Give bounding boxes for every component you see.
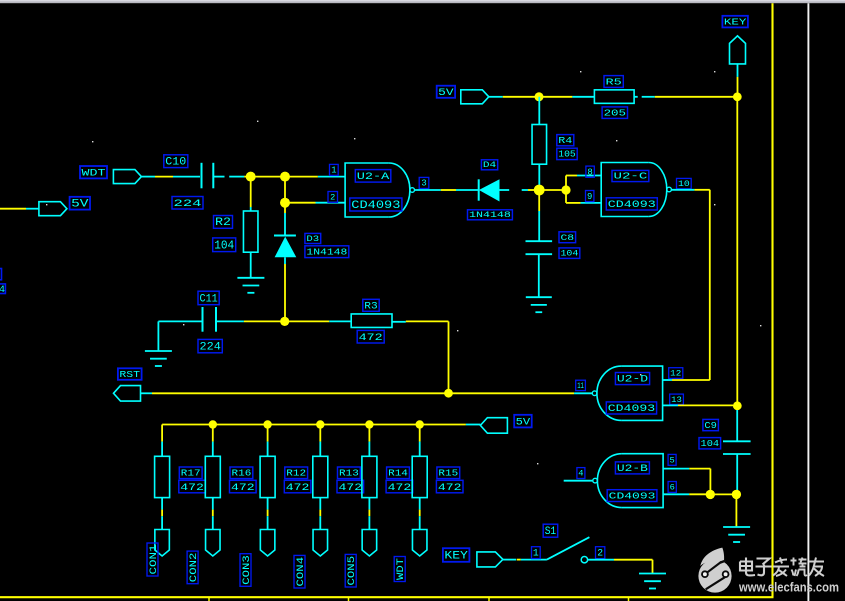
svg-text:6: 6 <box>670 483 675 493</box>
wire R14-connector <box>368 498 370 530</box>
wire R13-connector <box>319 498 321 530</box>
wire pin13-KEY <box>663 404 733 406</box>
wire bracket U2-C <box>566 176 601 203</box>
pin label 9 <box>586 191 594 202</box>
wire bus-R14 <box>368 425 370 457</box>
label U2-A <box>355 170 391 184</box>
wire node-bracket <box>539 189 566 191</box>
capacitor C11 <box>203 307 217 332</box>
label U2-B CD4093 <box>607 490 657 502</box>
label R5 value 205 <box>602 107 627 119</box>
sheet border right <box>771 3 773 597</box>
label U2-C <box>612 170 649 181</box>
resistor R5 <box>594 90 634 104</box>
svg-text:CD4093: CD4093 <box>608 200 656 211</box>
wire junction-junction <box>251 176 285 178</box>
diode D4 1N4148 <box>479 179 500 201</box>
junction 5V/R5/R4 <box>535 92 544 101</box>
wire WDT-C10 <box>141 176 200 178</box>
wire C8-ground <box>538 254 540 297</box>
svg-text:104: 104 <box>701 438 720 449</box>
resistor R14 <box>362 456 377 497</box>
svg-text:224: 224 <box>174 198 202 210</box>
svg-text:R5: R5 <box>606 77 623 88</box>
label C10 <box>164 155 188 169</box>
wire node-node vertical <box>284 177 286 203</box>
wire C9-node <box>736 454 738 494</box>
window top strip <box>0 0 845 3</box>
resistor R2 <box>243 211 258 252</box>
port 5V top <box>461 90 489 104</box>
svg-text:U2-C: U2-C <box>614 172 649 182</box>
sheet edge white line <box>807 3 809 601</box>
ground below R2 <box>237 278 264 293</box>
svg-text:472: 472 <box>231 482 255 494</box>
wire node-D3 <box>284 203 286 236</box>
svg-text:9: 9 <box>587 192 592 202</box>
svg-text:CON2: CON2 <box>188 553 200 583</box>
port KEY top <box>730 36 746 64</box>
clipped label fragment A <box>0 269 2 280</box>
ground below C8 <box>526 297 552 312</box>
wire pin6 node-node <box>710 493 736 495</box>
svg-text:2: 2 <box>330 193 335 203</box>
wire R4-node <box>538 164 540 190</box>
wire C11-node <box>216 320 285 322</box>
wire bus-R15 <box>419 425 421 457</box>
svg-text:KEY: KEY <box>444 551 468 563</box>
label R14 <box>387 467 410 479</box>
wire R17-connector <box>161 498 163 530</box>
svg-text:C8: C8 <box>561 233 575 243</box>
label R12 <box>285 467 308 479</box>
label C9 <box>703 419 719 430</box>
pin label 11 <box>576 380 586 391</box>
capacitor C8 <box>526 241 553 254</box>
port label CON2 <box>187 551 200 584</box>
resistor R3 <box>351 314 392 328</box>
port CON2 (column) <box>206 530 221 557</box>
svg-text:104: 104 <box>561 250 579 259</box>
svg-text:R2: R2 <box>215 217 231 229</box>
svg-text:224: 224 <box>200 342 222 354</box>
svg-text:3: 3 <box>421 179 426 189</box>
port label 5V top <box>437 86 455 98</box>
svg-text:1N4148: 1N4148 <box>469 212 511 220</box>
ground below S1 <box>639 574 666 589</box>
port label CON3 <box>240 554 253 587</box>
label R16 value 472 <box>230 480 257 494</box>
resistor R4 <box>532 125 547 165</box>
svg-text:R12: R12 <box>286 468 306 479</box>
pin label 1 <box>330 164 339 175</box>
wire R3-RST <box>391 321 448 393</box>
wire R16-connector <box>212 498 214 530</box>
bus junctions <box>209 420 424 428</box>
wire bus-R16 <box>212 425 214 457</box>
diode D3 1N4148 <box>274 236 296 258</box>
svg-text:U2-B: U2-B <box>617 463 648 474</box>
wire 5V left <box>0 208 39 210</box>
svg-text:4: 4 <box>578 469 583 479</box>
label R4 value 105 <box>557 148 577 160</box>
junction C9/ground <box>732 490 741 499</box>
resistor R15 <box>412 456 427 497</box>
pin label 5 <box>668 454 676 465</box>
wire pin6 <box>663 493 706 495</box>
resistor R16 <box>205 456 220 497</box>
clipped label fragment B <box>0 284 5 296</box>
pin label S1-2 <box>596 547 605 559</box>
pin label 3 <box>419 177 429 188</box>
pin label S1-1 <box>532 547 541 559</box>
resistor R17 <box>155 456 170 497</box>
label R3 <box>363 299 379 311</box>
port CON5 (column) <box>362 530 377 557</box>
label R17 <box>179 467 202 479</box>
label C9 value 104 <box>699 438 721 449</box>
svg-text:CD4093: CD4093 <box>351 200 400 212</box>
port 5V mid <box>480 418 507 434</box>
svg-text:4: 4 <box>0 285 5 296</box>
port label CON1 <box>147 543 160 576</box>
svg-text:5: 5 <box>669 456 674 466</box>
svg-text:472: 472 <box>339 482 363 494</box>
port RST <box>114 386 141 402</box>
port label 5V mid <box>514 415 532 429</box>
port label WDT <box>394 557 407 582</box>
wire bus-R13 <box>319 425 321 457</box>
junction C11/D3/R3 <box>280 317 289 326</box>
svg-text:1: 1 <box>331 166 336 176</box>
svg-text:13: 13 <box>671 396 682 405</box>
label D4 <box>481 160 497 170</box>
svg-text:R16: R16 <box>232 468 252 479</box>
wire KEY stub <box>737 64 739 97</box>
port label 5V left <box>70 197 90 211</box>
wire 5V resistor bus <box>162 424 480 426</box>
svg-text:472: 472 <box>438 482 462 494</box>
watermark url <box>738 580 839 595</box>
svg-text:U2-D: U2-D <box>617 374 648 385</box>
svg-text:8: 8 <box>587 167 592 177</box>
wire C10-node <box>213 176 250 178</box>
junction C10/R2 <box>246 172 256 182</box>
wire junction-R5 <box>539 96 594 98</box>
wire R2-ground <box>250 252 252 278</box>
svg-text:CD4093: CD4093 <box>608 403 655 414</box>
svg-text:C10: C10 <box>165 157 186 169</box>
wire C11-ground <box>158 321 202 351</box>
label R4 <box>557 135 574 146</box>
svg-text:5V: 5V <box>71 199 89 211</box>
resistor R12 <box>260 456 275 497</box>
pin label 12 <box>669 368 683 379</box>
wire node-ground <box>735 494 737 527</box>
wire R12-connector <box>267 498 269 530</box>
wire 5V-junction <box>489 96 539 98</box>
ground below C11 <box>145 351 172 366</box>
wire junction-R2 <box>250 180 252 211</box>
svg-text:CD4093: CD4093 <box>609 491 656 502</box>
wire to U2-A pin1 <box>285 176 345 178</box>
wire node-R3 <box>285 320 351 322</box>
nand gate U2-A CD4093 <box>345 163 414 217</box>
label R15 <box>437 467 460 479</box>
wire S1-ground <box>588 560 653 574</box>
grid dots <box>46 71 761 464</box>
label R2 value 104 <box>213 238 236 253</box>
svg-text:U2-A: U2-A <box>357 171 391 183</box>
watermark text dianzifashaoyou <box>740 558 824 577</box>
port 5V left <box>39 202 67 216</box>
port label WDT <box>80 166 107 179</box>
svg-text:12: 12 <box>670 369 681 379</box>
port CON1 (column) <box>155 530 170 557</box>
nand gate U2-B CD4093 <box>593 454 663 508</box>
wire KEY net vertical <box>736 97 738 406</box>
svg-text:104: 104 <box>214 239 234 252</box>
svg-text:R15: R15 <box>438 468 458 479</box>
wire U2-C out <box>663 190 710 380</box>
label U2-D <box>615 373 649 385</box>
label U2-D CD4093 <box>606 402 656 414</box>
svg-text:R14: R14 <box>388 468 408 479</box>
label U2-C CD4093 <box>606 198 657 211</box>
switch S1 arm <box>547 537 590 559</box>
wire R5-KEY <box>634 96 737 98</box>
pin label 6 <box>668 482 676 493</box>
resistor R13 <box>313 456 328 497</box>
port label RST <box>118 368 142 380</box>
label C11 value 224 <box>198 339 222 353</box>
port KEY bottom <box>477 552 503 567</box>
label U2-A CD4093 <box>350 198 402 212</box>
label C11 <box>198 291 219 305</box>
wire pin5 <box>663 469 710 490</box>
svg-text:205: 205 <box>604 108 626 119</box>
svg-text:10: 10 <box>678 180 690 189</box>
svg-text:472: 472 <box>388 482 412 494</box>
svg-text:CON3: CON3 <box>241 555 253 585</box>
label R13 <box>338 467 361 479</box>
label R12 value 472 <box>284 480 311 494</box>
wire U2-A out to D4 <box>415 189 479 191</box>
junction RST/R3 <box>444 389 453 398</box>
svg-text:11: 11 <box>577 382 584 391</box>
svg-text:CON1: CON1 <box>148 545 160 575</box>
pin label 4 <box>577 468 585 479</box>
label C8 value 104 <box>559 248 580 259</box>
wire bus-R12 <box>267 425 269 457</box>
junction pin1/D3 net <box>280 172 290 182</box>
label R13 value 472 <box>337 480 364 494</box>
label R2 <box>214 216 233 230</box>
svg-text:RST: RST <box>119 369 140 380</box>
svg-text:1: 1 <box>533 548 539 559</box>
wire node-C9 <box>736 410 738 441</box>
svg-text:D3: D3 <box>306 235 319 244</box>
label D3 value 1N4148 <box>305 246 349 258</box>
wire RST <box>141 392 449 394</box>
svg-text:1N4148: 1N4148 <box>306 247 347 258</box>
port label CON4 <box>294 555 307 588</box>
wire RST-U2D <box>449 392 593 394</box>
wire D3-C11 net <box>284 257 286 321</box>
port WDT <box>113 170 141 184</box>
port label KEY top <box>722 16 748 28</box>
junction pin5/pin6 <box>706 490 715 499</box>
svg-text:R17: R17 <box>181 468 201 479</box>
port WDT (column) <box>412 530 427 557</box>
wire to U2-A pin2 <box>285 202 345 204</box>
wire bus-R17 <box>161 425 163 457</box>
wire KEY-S1 <box>503 559 547 561</box>
wire R15-connector <box>419 498 421 530</box>
sheet border bottom <box>0 596 774 598</box>
junction pin13/C9 <box>733 401 742 410</box>
port label CON5 <box>345 554 358 587</box>
wire D4-node <box>500 189 535 191</box>
port label KEY bottom <box>443 548 470 562</box>
svg-text:2: 2 <box>597 548 603 559</box>
svg-text:D4: D4 <box>483 162 497 170</box>
svg-text:472: 472 <box>180 482 204 494</box>
label C10 value 224 <box>172 197 203 211</box>
pin label 13 <box>670 394 684 405</box>
switch S1 contact <box>581 557 587 563</box>
nand gate U2-D CD4093 <box>592 366 662 420</box>
label D4 value 1N4148 <box>468 210 513 220</box>
label R16 <box>230 467 253 479</box>
ground below C9 <box>723 527 750 542</box>
wire pin4 stub <box>564 480 593 482</box>
svg-text:R3: R3 <box>364 300 378 311</box>
label S1 <box>543 524 558 538</box>
svg-text:www.elecfans.com: www.elecfans.com <box>738 580 839 595</box>
nand gate U2-C CD4093 <box>601 163 671 217</box>
label D3 <box>305 233 321 243</box>
pin label 8 <box>586 166 594 177</box>
capacitor C10 <box>202 163 214 189</box>
svg-text:S1: S1 <box>545 526 557 538</box>
svg-text:472: 472 <box>286 482 310 494</box>
svg-text:WDT: WDT <box>395 558 407 580</box>
border ticks <box>209 598 629 601</box>
watermark logo circle <box>698 548 731 593</box>
label U2-B <box>615 462 649 474</box>
svg-text:5V: 5V <box>438 87 453 98</box>
svg-text:R4: R4 <box>558 136 572 146</box>
svg-text:KEY: KEY <box>724 17 747 28</box>
label R14 value 472 <box>386 480 413 494</box>
pin label 10 <box>677 178 692 189</box>
svg-text:WDT: WDT <box>82 168 106 179</box>
svg-text:472: 472 <box>359 332 383 344</box>
wire node-C8 <box>538 195 540 241</box>
junction pin2/D3 <box>280 198 290 208</box>
junction KEY/R5 <box>733 92 742 101</box>
wire junction-R4 <box>538 97 540 125</box>
junction U2-C inputs <box>561 185 570 194</box>
label R3 value 472 <box>357 330 384 344</box>
pin label 2 <box>328 192 338 203</box>
label C8 <box>559 232 576 243</box>
label R5 <box>604 76 623 88</box>
label R17 value 472 <box>179 480 206 494</box>
svg-text:105: 105 <box>558 149 575 160</box>
label R15 value 472 <box>436 480 463 494</box>
svg-text:R13: R13 <box>339 468 359 479</box>
svg-text:CON4: CON4 <box>295 557 307 587</box>
svg-text:C9: C9 <box>704 420 717 431</box>
capacitor C9 <box>723 441 751 454</box>
svg-text:C11: C11 <box>200 294 218 306</box>
junction D4/R4/C8 <box>534 185 545 196</box>
port CON4 (column) <box>313 530 328 557</box>
svg-text:CON5: CON5 <box>346 556 358 586</box>
port CON3 (column) <box>260 530 275 557</box>
svg-text:5V: 5V <box>516 416 531 428</box>
